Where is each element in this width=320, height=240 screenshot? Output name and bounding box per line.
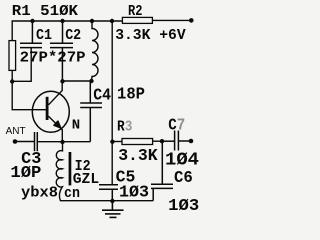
wire top rail (12, 20, 123, 22)
node R3/C7/C6 junction (160, 139, 164, 143)
svg-text:ybx8: ybx8 (21, 185, 58, 202)
wire R2 right lead (152, 19, 190, 21)
node R3 left junction (110, 140, 114, 144)
svg-text:1Ø3: 1Ø3 (119, 184, 149, 203)
capacitor C7 (162, 131, 189, 151)
node C2/collector junction (60, 79, 64, 83)
resistor R2 (122, 17, 152, 23)
capacitor C5 (99, 185, 118, 201)
transistor Q1 emitter arrow (54, 121, 61, 128)
svg-text:1ØP: 1ØP (10, 163, 41, 182)
svg-text:27P*27P: 27P*27P (20, 49, 86, 66)
svg-text:C7: C7 (168, 117, 185, 136)
capacitor C3 (35, 132, 38, 151)
wire R3 left lead (112, 141, 122, 143)
svg-text:cn: cn (64, 185, 80, 202)
wire C2 junction to coil bottom (63, 80, 92, 82)
wire junction down to base (12, 82, 46, 110)
inductor L1 (92, 21, 99, 81)
svg-text:C2: C2 (65, 27, 81, 44)
svg-text:3.3K +6V: 3.3K +6V (115, 27, 186, 44)
transistor Q1 collector (49, 81, 63, 105)
wire R1 top lead (11, 21, 13, 41)
capacitor C1 (20, 21, 42, 48)
svg-text:1Ø3: 1Ø3 (168, 197, 199, 216)
node top L1 (90, 19, 94, 23)
terminal ANT (13, 139, 18, 144)
svg-text:1Ø4: 1Ø4 (165, 150, 199, 170)
terminal +6V (189, 18, 194, 23)
capacitor C4 (80, 81, 102, 142)
capacitor C2 (50, 21, 73, 81)
svg-text:18P: 18P (117, 86, 145, 105)
wire R1 bottom lead (11, 70, 13, 81)
wire ANT to C3 (15, 141, 34, 143)
ground (102, 201, 124, 217)
svg-text:C4: C4 (93, 87, 111, 106)
node R1/C1/base junction (10, 79, 14, 83)
wire bottom rail (60, 200, 153, 202)
wire R3 right lead (153, 140, 162, 142)
resistor R3 (122, 139, 153, 145)
node emitter junction (60, 140, 64, 144)
inductor I2 (56, 142, 62, 201)
transistor Q1 base bar (46, 97, 49, 120)
svg-text:3.3K: 3.3K (118, 146, 158, 165)
transistor Q1 circle (32, 91, 69, 132)
node coil bottom / C4 top (89, 79, 93, 83)
svg-text:C1: C1 (36, 27, 52, 44)
node top C1 (30, 19, 34, 23)
wire C3 to emitter junction (37, 141, 90, 143)
node ground junction (110, 199, 114, 203)
svg-text:ANT: ANT (6, 125, 27, 137)
node top C2 (60, 19, 64, 23)
wire junction to C1 bottom (12, 48, 31, 82)
svg-text:R1 51ØK: R1 51ØK (12, 3, 78, 20)
svg-text:N: N (72, 117, 80, 133)
capacitor C6 (151, 141, 173, 201)
transistor Q1 emitter (49, 116, 63, 142)
terminal C7 out (189, 139, 194, 144)
wire mid vertical line (111, 21, 113, 184)
resistor R1 (9, 41, 16, 71)
svg-text:C6: C6 (174, 169, 193, 188)
svg-text:R3: R3 (117, 119, 132, 136)
inductor I2 core bar (69, 152, 72, 185)
node top mid (110, 19, 114, 23)
